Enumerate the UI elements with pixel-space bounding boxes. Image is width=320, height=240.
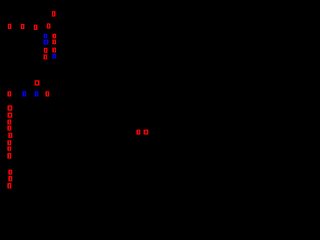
pad D1-1	[136, 130, 140, 135]
pad U1-8	[52, 34, 56, 39]
pad C1-1	[8, 170, 12, 175]
pad J1-3	[34, 25, 38, 30]
pad U1-7	[52, 40, 56, 45]
pad P1	[35, 80, 40, 85]
pad R1-1	[7, 91, 11, 96]
pad D1-2	[144, 130, 149, 135]
pad C2-1	[7, 183, 11, 188]
pad J2-5	[8, 133, 12, 138]
pad J1-2	[21, 24, 25, 29]
via V1	[43, 34, 47, 38]
board background	[0, 0, 200, 200]
pad J1-5	[52, 11, 56, 16]
pad U1-2	[44, 48, 48, 53]
pad J2-4	[7, 126, 11, 131]
pad J2-2	[8, 113, 13, 118]
pad U1-1	[44, 40, 49, 45]
pad J2-8	[7, 153, 11, 159]
pad U1-6	[52, 48, 56, 53]
pad R1-2	[22, 91, 26, 96]
pad J1-4	[47, 23, 51, 28]
pad J2-1	[8, 105, 13, 110]
pad J2-6	[7, 140, 11, 145]
pad C1-2	[8, 176, 12, 181]
pad U1-3	[43, 54, 47, 59]
pad U1-5	[52, 54, 56, 59]
pad J1-1	[8, 24, 12, 29]
pad R2-2	[45, 91, 49, 96]
pad J2-7	[7, 146, 11, 150]
pad R2-1	[35, 91, 39, 96]
pad J2-3	[7, 120, 11, 125]
